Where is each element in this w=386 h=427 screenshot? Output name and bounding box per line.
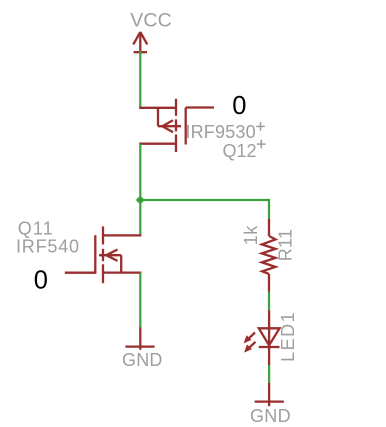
svg-text:LED1: LED1 — [278, 311, 298, 362]
ground symbol GND (LED1) — [255, 383, 284, 406]
LED1 cathode bar — [259, 346, 280, 348]
Q11 bulk arrow shaft — [99, 254, 121, 256]
supply symbol VCC — [133, 32, 147, 52]
Q11 channel middle segment — [102, 249, 104, 261]
svg-text:GND: GND — [122, 350, 163, 370]
svg-text:0: 0 — [232, 92, 246, 120]
R11 bottom pin — [268, 274, 270, 292]
Q11 channel top segment — [102, 226, 104, 244]
transistor Q11 (IRF540 N-MOSFET) — [65, 226, 142, 283]
Q11 bulk arrow barb upper — [106, 250, 117, 256]
svg-text:R11: R11 — [275, 229, 295, 262]
LED1 emission arrow 1 shaft — [249, 333, 256, 339]
svg-text:GND: GND — [250, 406, 291, 426]
wire LED1 to GND — [268, 365, 270, 383]
Q12 source lead — [139, 107, 176, 109]
origin cross at Q12 — [257, 140, 266, 149]
svg-text:IRF9530: IRF9530 — [185, 122, 255, 142]
wire junction to Q11 drain — [139, 200, 141, 236]
R11 top pin — [268, 219, 270, 236]
LED1 anode pin through body — [268, 310, 270, 365]
Q12 bulk arrow barb upper — [162, 120, 173, 126]
Q12 bulk arrow shaft — [158, 125, 181, 127]
svg-text:Q12: Q12 — [223, 141, 257, 161]
Q11 source lead — [103, 271, 141, 273]
Q11 channel bottom segment — [102, 264, 104, 283]
wire Q12 drain to junction — [139, 144, 141, 200]
svg-text:0: 0 — [34, 266, 48, 294]
Q12 bulk arrow barb lower — [162, 126, 173, 132]
resistor R11 — [262, 219, 276, 292]
svg-text:IRF540: IRF540 — [16, 236, 80, 256]
Q12 channel bottom segment — [175, 135, 177, 153]
wire VCC to Q12 source — [139, 51, 141, 108]
Q12 channel middle segment — [175, 119, 177, 131]
ground symbol GND (Q11 source) — [125, 328, 154, 350]
LED LED1 — [249, 310, 280, 365]
wire junction to R11 (horizontal) — [140, 199, 269, 201]
R11 zigzag body — [262, 236, 276, 274]
svg-text:1k: 1k — [241, 225, 261, 246]
origin cross at IRF9530 — [256, 122, 265, 131]
Q12 gate lead — [186, 106, 214, 108]
Q12 gate line — [185, 108, 187, 145]
wire down to R11 pin — [268, 199, 270, 219]
node junction — [136, 196, 145, 205]
LED1 emission arrow 1 head — [244, 335, 252, 343]
transistor Q12 (IRF9530 P-MOSFET) — [139, 99, 214, 152]
Q12 drain lead — [139, 143, 176, 145]
Q12 bulk vertical — [157, 108, 159, 126]
LED1 emission arrow 2 shaft — [249, 342, 256, 348]
wire R11 to LED1 — [268, 292, 270, 311]
Q11 drain lead — [103, 234, 141, 236]
LED1 triangle — [259, 328, 280, 345]
Q11 gate lead — [65, 272, 96, 274]
svg-text:VCC: VCC — [130, 10, 172, 32]
Q11 bulk vertical to source — [120, 255, 122, 272]
Q11 bulk arrow barb lower — [106, 255, 117, 261]
Q12 channel top segment — [175, 99, 177, 116]
Q11 gate line — [94, 235, 96, 274]
wire Q11 source to GND — [139, 273, 141, 328]
LED1 emission arrow 2 head — [244, 345, 252, 353]
